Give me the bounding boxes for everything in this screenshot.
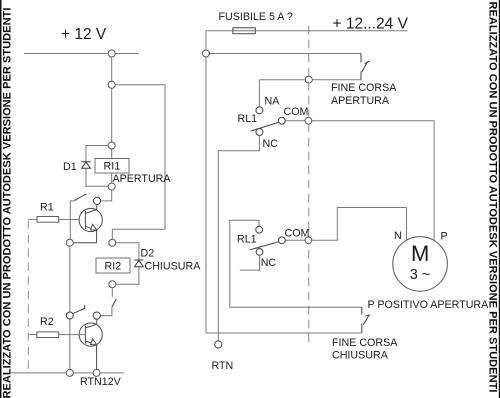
wire bottom rail RTN12V [10,372,124,374]
wire RI2 down with contact [111,284,113,297]
wire COM lower to motor N [285,208,406,242]
svg-text:RL1: RL1 [238,113,258,125]
svg-text:NA: NA [265,96,281,108]
resistor R1 [37,217,59,223]
wire main vertical right [205,54,207,334]
node rail left [108,50,115,57]
svg-text:N: N [394,230,402,242]
node COM dashed [305,117,312,124]
svg-text:R1: R1 [40,201,54,213]
svg-text:RTN: RTN [212,360,234,372]
motor M1 [393,237,448,292]
svg-text:D2: D2 [141,248,155,260]
contact NA terminal lower [256,226,263,233]
limit switch chiusura [362,307,370,333]
terminal RTN [215,341,222,348]
svg-text:FINE CORSA: FINE CORSA [332,337,398,349]
node rail bottom left [66,369,73,376]
wire D1 loop [86,146,112,187]
svg-text:M: M [411,241,429,266]
svg-text:NC: NC [261,257,277,269]
wire main vertical left [111,54,113,159]
node switch S1 collector [93,197,100,204]
wire lower contact NA up and box [230,220,362,307]
contact blade RL1 upper [251,122,279,131]
node D1 bottom [108,183,115,190]
node branch [108,81,115,88]
resistor R2 wires [28,334,37,336]
svg-text:P: P [441,230,448,242]
svg-text:REALIZZATO CON UN PRODOTTO AUT: REALIZZATO CON UN PRODOTTO AUTODESK VERS… [2,8,14,398]
svg-text:APERTURA: APERTURA [113,173,172,185]
switch S2 blade [73,308,85,313]
node D1 top [108,142,115,149]
wire +12V rail [24,53,139,55]
fuse F1 [233,28,255,34]
switch S1 blade [75,194,87,201]
contact blade RI2 branch [112,299,116,307]
node switch S2 [66,312,73,319]
svg-text:3 ~: 3 ~ [410,267,431,283]
contact NC terminal [256,129,263,136]
svg-text:R2: R2 [40,316,54,328]
wire bottom right [206,332,362,334]
limit switch apertura [361,54,370,80]
svg-text:+ 12...24 V: + 12...24 V [333,16,409,33]
node D2 bottom [109,281,116,288]
node emitter Q1 [66,239,73,246]
wire coil RI1 to switch [97,173,112,201]
node rail2 [203,50,210,57]
left watermark bar [0,0,14,398]
contact COM terminal [278,117,285,124]
wire rail2 [206,53,361,55]
node D2 top [109,239,116,246]
wire D2 loop [112,243,139,284]
svg-text:D1: D1 [63,161,77,173]
svg-text:P POSITIVO APERTURA: P POSITIVO APERTURA [368,299,490,311]
node COM lower dashed [305,237,312,244]
svg-text:COM: COM [284,106,309,118]
svg-text:FUSIBILE 5 A ?: FUSIBILE 5 A ? [219,11,293,23]
svg-text:APERTURA: APERTURA [331,95,390,107]
svg-text:RL1: RL1 [237,233,257,245]
svg-text:RI1: RI1 [104,161,121,173]
wire contact to Q2 collector [100,307,112,316]
contact NA terminal [256,107,263,114]
svg-text:CHIUSURA: CHIUSURA [332,350,389,362]
wire NC stub lower [240,255,260,270]
svg-text:NC: NC [263,138,279,150]
resistor R2 [37,332,59,338]
transistor Q2 [79,319,102,373]
relay coil RI2 [96,258,130,273]
svg-text:RTN12V: RTN12V [80,376,122,388]
wire NC to RTN [218,136,259,342]
contact blade RL1 lower [250,242,279,250]
svg-text:+ 12 V: + 12 V [61,26,107,43]
wire NA line [260,79,361,81]
svg-text:RI2: RI2 [105,261,122,273]
right watermark bar [487,0,500,398]
diode D2 [134,260,143,267]
node Q2 collector [93,312,100,319]
node rail bottom emitter [93,369,100,376]
wire fuse line [206,31,233,54]
svg-text:REALIZZATO CON UN PRODOTTO AUT: REALIZZATO CON UN PRODOTTO AUTODESK VERS… [487,2,499,393]
dashed control line left [27,221,29,373]
resistor R1 wires [28,219,37,221]
contact NC terminal lower [256,249,263,256]
switch S1 wire left [70,201,74,243]
transistor Q1 [70,204,103,242]
switch S2 tick [84,305,86,309]
contact COM terminal lower [279,237,286,244]
dashed mechanical line right [308,26,310,347]
wire COM to motor P [285,121,434,242]
diode D1 [81,162,90,169]
node on dashed upper [305,76,312,83]
wire emitter rail down [69,243,71,373]
wire RI2 branch [112,85,165,243]
relay coil RI1 [95,159,129,174]
svg-text:FINE CORSA: FINE CORSA [331,82,397,94]
svg-text:CHIUSURA: CHIUSURA [145,261,202,273]
